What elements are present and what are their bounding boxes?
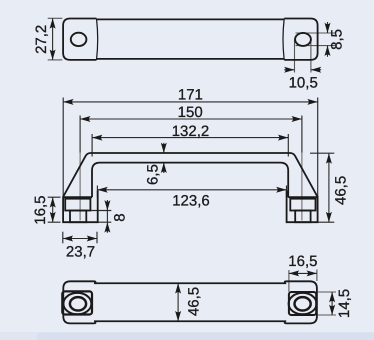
svg-text:16,5: 16,5 [32,195,49,224]
svg-text:23,7: 23,7 [66,244,95,261]
svg-text:6,5: 6,5 [144,164,161,185]
svg-text:46,5: 46,5 [332,176,349,205]
svg-text:132,2: 132,2 [172,123,210,140]
svg-text:8,5: 8,5 [328,29,345,50]
svg-text:10,5: 10,5 [289,75,318,92]
svg-text:16,5: 16,5 [288,253,317,270]
svg-text:123,6: 123,6 [172,192,210,209]
svg-text:171: 171 [178,87,203,104]
svg-text:14,5: 14,5 [336,289,353,318]
svg-text:46,5: 46,5 [185,287,202,316]
svg-text:27,2: 27,2 [33,25,50,54]
svg-text:8: 8 [111,213,128,221]
svg-text:150: 150 [178,104,203,121]
